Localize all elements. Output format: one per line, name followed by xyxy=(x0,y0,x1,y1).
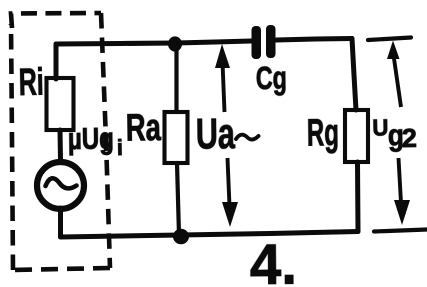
svg-text:i: i xyxy=(117,135,123,160)
wire Ra top lead xyxy=(174,43,178,112)
wire node A to Cg left plate xyxy=(176,41,251,43)
capacitor Cg plates xyxy=(252,26,262,59)
ac source G1 (circle with sine) xyxy=(37,162,84,209)
wire top-right corner down to Rg xyxy=(352,39,356,111)
svg-text:µUg: µUg xyxy=(68,122,114,156)
dimension arrow Ua (upper shaft) xyxy=(223,62,225,112)
dimension arrow Ua (up arrowhead) xyxy=(215,44,230,68)
dimension Ug2 up arrowhead xyxy=(387,41,400,60)
svg-text:Cg: Cg xyxy=(256,60,287,96)
wire source bottom lead xyxy=(58,208,63,237)
wire bottom (source to node B) xyxy=(61,235,181,237)
dashed enclosure box xyxy=(11,13,110,270)
dimension Ug2 down arrowhead xyxy=(394,200,410,225)
wire Ra bottom lead xyxy=(177,163,179,235)
wire Ri bottom to source xyxy=(58,130,64,160)
dimension Ug2 lower shaft xyxy=(399,158,402,203)
dimension Ug2 upper shaft xyxy=(394,55,402,107)
dimension arrow Ua (down arrowhead) xyxy=(222,202,238,227)
svg-text:4.: 4. xyxy=(250,233,298,287)
node B junction dot xyxy=(173,229,189,244)
dimension arrow Ua (lower shaft) xyxy=(228,158,230,206)
dimension Ug2 top tick xyxy=(368,38,411,41)
resistor Rg xyxy=(345,110,368,162)
node A junction dot xyxy=(168,36,182,51)
wire top left (Ri top to node A) xyxy=(56,43,176,44)
resistor Ra xyxy=(165,112,188,163)
wire Cg right plate to top-right corner xyxy=(276,39,352,41)
svg-text:Ra: Ra xyxy=(126,107,162,149)
wire Ri top lead xyxy=(54,44,59,79)
resistor Ri xyxy=(47,78,74,130)
svg-text:2: 2 xyxy=(402,123,417,153)
wire Rg bottom lead xyxy=(355,162,361,232)
svg-text:Ua: Ua xyxy=(196,110,236,158)
wire bottom (node B to Rg bottom) xyxy=(180,232,358,236)
svg-text:Ri: Ri xyxy=(18,61,44,104)
svg-text:U: U xyxy=(372,114,388,140)
svg-text:Rg: Rg xyxy=(307,112,340,154)
dimension Ug2 bottom tick xyxy=(374,230,427,232)
